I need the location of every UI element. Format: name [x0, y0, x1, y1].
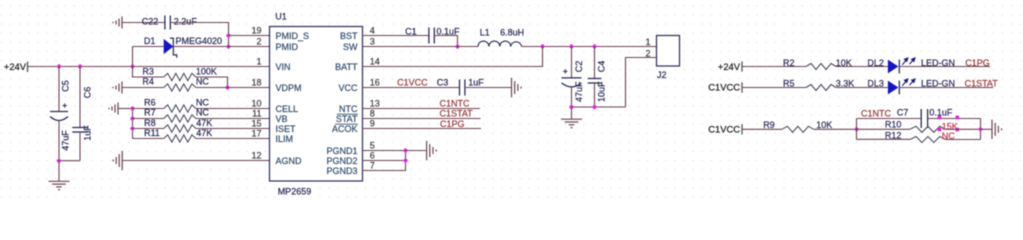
wire to pin 11	[196, 118, 270, 120]
svg-text:NTC: NTC	[339, 104, 358, 114]
wire R5 to DL3	[836, 87, 888, 89]
inductor L1	[478, 41, 522, 46]
capacitor C7	[921, 109, 927, 128]
svg-text:4: 4	[370, 25, 375, 35]
capacitor C6	[72, 128, 88, 133]
U1 pin names (right)	[326, 31, 358, 176]
svg-text:R8: R8	[144, 118, 156, 128]
wire bus to R7	[133, 118, 164, 120]
wire bus to R8	[133, 128, 164, 130]
svg-text:C22: C22	[142, 16, 159, 26]
svg-text:LED-GN: LED-GN	[921, 78, 955, 88]
svg-text:D1: D1	[144, 36, 156, 46]
resistor R4	[164, 84, 196, 91]
wire to R12	[857, 138, 911, 140]
wire DL3 to C1STAT	[899, 87, 993, 89]
junction BATT tap	[540, 44, 545, 49]
ground (under C5/C6)	[49, 181, 70, 189]
svg-text:C1VCC: C1VCC	[708, 124, 740, 135]
op IC U1 MP2659 body	[270, 27, 363, 182]
wire bus to R6	[133, 108, 164, 110]
svg-text:2: 2	[256, 36, 261, 46]
svg-text:VDPM: VDPM	[276, 83, 302, 93]
wire to pin 2	[229, 46, 270, 48]
svg-text:DL2: DL2	[867, 58, 884, 68]
svg-text:13: 13	[370, 98, 380, 108]
svg-text:3.3K: 3.3K	[836, 78, 855, 88]
ground (C22)	[113, 17, 122, 29]
wire bus to R11	[133, 138, 164, 140]
parameter handles (15K)	[938, 116, 942, 120]
junction C2 tap	[569, 44, 574, 49]
svg-text:R2: R2	[783, 58, 795, 68]
svg-text:5: 5	[370, 140, 375, 150]
svg-text:14: 14	[370, 56, 380, 66]
svg-text:R3: R3	[142, 67, 154, 77]
svg-text:47uF: 47uF	[61, 130, 71, 151]
wire gnd to R4	[122, 87, 164, 89]
junction C6 tap	[77, 64, 82, 69]
capacitor C1	[429, 28, 434, 44]
resistor R6	[164, 105, 196, 112]
svg-text:10K: 10K	[816, 120, 832, 130]
svg-text:47K: 47K	[196, 128, 212, 138]
svg-text:C1STAT: C1STAT	[965, 78, 999, 88]
junction PGND2	[403, 158, 408, 163]
U1 pin numbers (left)	[251, 25, 261, 160]
wire ground stem (C2)	[571, 107, 573, 119]
svg-text:8: 8	[370, 108, 375, 118]
junction R7	[130, 116, 135, 121]
svg-text:R7: R7	[144, 108, 156, 118]
resistor R10	[910, 126, 946, 132]
svg-text:MP2659: MP2659	[278, 187, 312, 197]
wire VCC	[363, 87, 460, 89]
svg-text:R10: R10	[885, 120, 902, 130]
svg-text:+24V: +24V	[4, 61, 27, 72]
wire C6 bottom lead	[79, 132, 81, 161]
wire C6 top lead	[79, 67, 81, 128]
junction bottom of C5	[56, 158, 61, 163]
junction C4 bottom	[592, 104, 597, 109]
svg-text:PMID: PMID	[276, 42, 299, 52]
svg-text:ILIM: ILIM	[276, 134, 294, 144]
svg-text:VIN: VIN	[276, 62, 291, 72]
wire ground stem	[58, 161, 60, 182]
wire to R10	[857, 128, 911, 130]
resistor R11	[164, 135, 196, 142]
capacitor C2	[562, 78, 582, 87]
svg-text:10uF: 10uF	[597, 81, 607, 102]
wire C5 bottom lead	[58, 121, 60, 161]
svg-text:AGND: AGND	[276, 156, 303, 166]
wire output ground bus	[572, 106, 626, 108]
svg-text:11: 11	[252, 108, 261, 118]
wire PGND to ground	[406, 150, 427, 152]
wire PGND bus	[363, 151, 406, 171]
svg-text:CELL: CELL	[276, 104, 299, 114]
svg-text:47uF: 47uF	[574, 81, 584, 102]
ground (NTC network)	[992, 120, 1002, 139]
wire R12 to right bus	[946, 139, 981, 141]
capacitor C5	[50, 112, 68, 121]
connector J2 body	[657, 36, 680, 67]
wire gnd to bus	[118, 108, 133, 110]
svg-text:C1VCC: C1VCC	[397, 78, 428, 88]
ground (under C2/C4)	[561, 119, 582, 127]
port bar C1VCC (DL3 row)	[741, 82, 743, 92]
wire +24V to R3	[133, 67, 164, 78]
wire STAT	[363, 118, 481, 120]
wire PGND1	[363, 150, 406, 152]
port bar +24V (LED row)	[741, 61, 743, 71]
port bar C1VCC (NTC row)	[741, 124, 743, 134]
junction VDPM node	[225, 85, 230, 90]
wire gnd-C22	[122, 22, 165, 24]
wire ground bus	[132, 109, 134, 139]
wire AGND to pin 12	[122, 160, 269, 162]
svg-text:18: 18	[251, 77, 261, 87]
LED DL3	[888, 79, 915, 94]
wire SW	[363, 46, 479, 48]
junction C5 tap	[56, 64, 61, 69]
svg-text:R5: R5	[783, 78, 795, 88]
wire to pin 15	[196, 128, 270, 130]
svg-text:16: 16	[370, 77, 380, 87]
svg-text:BATT: BATT	[335, 62, 358, 72]
svg-text:R4: R4	[142, 77, 154, 87]
svg-text:7: 7	[370, 160, 375, 170]
svg-text:6.8uH: 6.8uH	[500, 27, 524, 37]
LED DL2	[888, 58, 915, 73]
svg-text:100K: 100K	[196, 67, 217, 77]
wire R3 to VDPM node	[196, 77, 228, 88]
svg-text:R9: R9	[763, 120, 775, 130]
junction PGND1	[403, 148, 408, 153]
wire C2 top lead	[571, 47, 573, 78]
svg-text:C1VCC: C1VCC	[708, 82, 740, 93]
svg-text:1: 1	[256, 56, 261, 66]
ground (C3)	[512, 78, 522, 97]
svg-text:BST: BST	[340, 31, 358, 41]
junction R8	[130, 126, 135, 131]
svg-text:PGND3: PGND3	[326, 166, 357, 176]
svg-text:C1PG: C1PG	[965, 58, 990, 68]
resistor R7	[164, 115, 196, 122]
wire ACOK	[363, 128, 482, 130]
wire BST	[363, 35, 429, 37]
svg-text:C1STAT: C1STAT	[440, 109, 474, 119]
svg-text:C1NTC: C1NTC	[440, 99, 471, 109]
capacitor C3	[460, 80, 465, 96]
ground (R6 group)	[109, 103, 118, 115]
svg-text:SW: SW	[343, 42, 358, 52]
svg-text:PGND2: PGND2	[326, 156, 357, 166]
svg-text:NC: NC	[196, 77, 209, 87]
port bar +24V	[27, 62, 29, 72]
capacitor C4	[588, 79, 602, 84]
svg-text:17: 17	[251, 128, 261, 138]
svg-text:2.2uF: 2.2uF	[174, 16, 198, 26]
wire to pin 19	[229, 35, 270, 37]
wire C3 to ground	[465, 87, 512, 89]
wire C7 to right bus	[928, 118, 981, 120]
svg-text:3: 3	[370, 36, 375, 46]
resistor R2	[806, 64, 836, 70]
svg-text:PMEG4020: PMEG4020	[176, 36, 223, 46]
svg-text:19: 19	[251, 25, 261, 35]
wire BATT	[363, 47, 543, 67]
wire C2 bottom lead	[571, 87, 573, 107]
resistor R3	[164, 73, 196, 80]
wire right parallel bus	[980, 119, 982, 140]
wire C5-C6 bottom	[59, 160, 80, 162]
svg-text:PMID_S: PMID_S	[276, 31, 310, 41]
junction NTC node	[854, 127, 859, 132]
wire C22 to PMID	[170, 23, 228, 47]
svg-text:C1: C1	[405, 27, 417, 37]
svg-text:C2: C2	[574, 61, 584, 73]
svg-text:R6: R6	[144, 98, 156, 108]
svg-text:R12: R12	[885, 131, 902, 141]
svg-text:PGND1: PGND1	[326, 146, 357, 156]
wire C1 to SW	[434, 36, 457, 47]
wire L1 to J2 pin 1	[522, 46, 657, 48]
wire to D1 anode	[133, 46, 164, 48]
resistor R8	[164, 125, 196, 132]
svg-text:1uF: 1uF	[468, 78, 484, 88]
svg-text:VB: VB	[276, 114, 288, 124]
ground (PGND)	[427, 141, 437, 160]
svg-text:VCC: VCC	[338, 83, 358, 93]
svg-text:1uF: 1uF	[82, 125, 92, 141]
junction D1/R3 tap	[130, 64, 135, 69]
svg-text:47K: 47K	[196, 118, 212, 128]
wire +24V to R2	[742, 66, 806, 68]
ground (AGND)	[113, 151, 122, 170]
wire DL2 to C1PG	[899, 66, 990, 68]
svg-text:STAT: STAT	[336, 114, 358, 124]
svg-text:U1: U1	[275, 12, 287, 22]
wire C1VCC to R9	[742, 128, 782, 130]
junction C4 tap	[592, 44, 597, 49]
overline NTC / STAT	[335, 114, 358, 124]
svg-text:15: 15	[251, 118, 261, 128]
svg-text:C3: C3	[437, 78, 449, 88]
wire R2 to DL2	[836, 66, 888, 68]
svg-text:J2: J2	[657, 70, 667, 80]
junction R6	[130, 106, 135, 111]
junction PMID	[226, 44, 231, 49]
wire to ground (NTC net)	[981, 128, 993, 130]
wire PGND2	[363, 160, 406, 162]
svg-text:10: 10	[251, 98, 261, 108]
svg-text:C1NTC: C1NTC	[861, 109, 892, 119]
svg-text:1: 1	[645, 37, 650, 47]
svg-text:C4: C4	[597, 61, 607, 73]
junction PMID_S	[226, 33, 231, 38]
wire D1 cathode	[173, 46, 228, 48]
svg-text:12: 12	[251, 150, 261, 160]
svg-text:C7: C7	[897, 108, 909, 118]
wire +24V rail	[28, 66, 270, 68]
junction C2 bottom	[569, 104, 574, 109]
svg-text:C5: C5	[61, 80, 71, 92]
wire R10 to right bus	[946, 128, 981, 130]
junction C1/SW	[455, 44, 460, 49]
resistor R12	[910, 137, 946, 143]
ground (R4)	[113, 82, 122, 94]
svg-text:2: 2	[645, 49, 650, 59]
junction right bus	[978, 127, 983, 132]
diode D1 (schottky)	[164, 38, 177, 58]
svg-text:C6: C6	[82, 87, 92, 99]
svg-text:NC: NC	[196, 108, 209, 118]
svg-text:+24V: +24V	[718, 61, 741, 72]
wire D1 anode drop	[132, 47, 134, 67]
wire C5 top lead	[58, 67, 60, 112]
svg-text:6: 6	[370, 150, 375, 160]
svg-text:ACOK: ACOK	[332, 124, 358, 134]
wire NTC	[363, 108, 481, 110]
svg-text:R11: R11	[144, 128, 160, 138]
capacitor C22	[165, 16, 170, 30]
wire to pin 17	[196, 138, 270, 140]
svg-text:NC: NC	[196, 98, 209, 108]
svg-text:C1PG: C1PG	[440, 119, 465, 129]
wire J2 pin 2 return	[626, 58, 657, 108]
svg-text:DL3: DL3	[867, 78, 884, 88]
svg-text:ISET: ISET	[276, 124, 297, 134]
wire C1VCC to R5	[742, 87, 806, 89]
U1 pin numbers (right)	[370, 25, 380, 170]
wire left parallel bus	[856, 119, 858, 140]
wire to pin 10	[196, 108, 270, 110]
resistor R9	[782, 126, 814, 132]
wire to pin 18	[196, 87, 270, 89]
wire C4 top lead	[594, 47, 596, 79]
resistor R5	[806, 85, 836, 91]
U1 pin names (left)	[276, 31, 310, 166]
wire C4 bottom lead	[594, 83, 596, 107]
svg-text:9: 9	[370, 118, 375, 128]
wire to C7	[857, 118, 922, 120]
wire R9 to NTC node	[814, 128, 857, 130]
svg-text:L1: L1	[480, 27, 490, 37]
